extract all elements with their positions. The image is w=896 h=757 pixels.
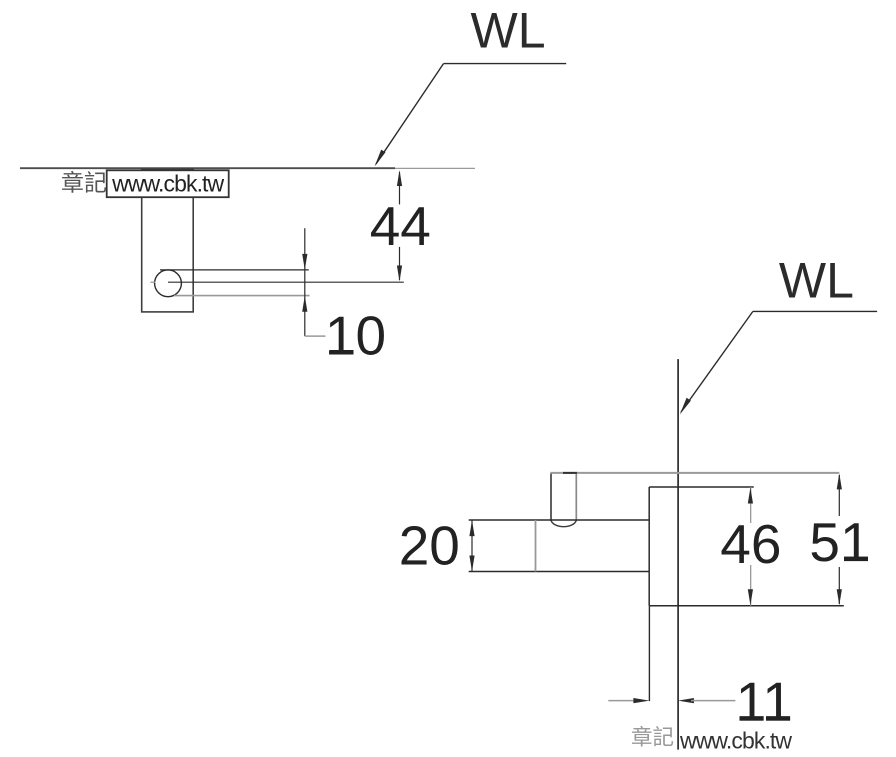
- svg-text:20: 20: [399, 514, 460, 576]
- svg-text:章記: 章記: [631, 726, 674, 750]
- lower bar (right view): [648, 606, 650, 701]
- WL leader line (left view): [375, 64, 567, 167]
- dimension 46: [720, 488, 781, 606]
- hook tip top edge (dark segment): [563, 472, 577, 474]
- arm bottom line (right view): [469, 571, 650, 573]
- fixture top line (right view): [550, 472, 839, 474]
- wall flange square (right view): [649, 487, 844, 606]
- svg-text:www.cbk.tw: www.cbk.tw: [679, 727, 792, 753]
- watermark box (top): [61, 170, 229, 198]
- dimension 51: [809, 473, 870, 605]
- arm top line (right view): [469, 519, 650, 521]
- arm centerline (left view): [151, 281, 156, 283]
- mount plate rectangle: [142, 169, 194, 312]
- wall line (left view): [20, 167, 475, 169]
- arm left end cap (right view): [535, 520, 537, 572]
- WL leader line (right view): [680, 311, 877, 414]
- svg-text:WL: WL: [471, 3, 546, 59]
- dimension 10: [302, 228, 386, 366]
- hook tip cylinder: [551, 474, 576, 527]
- svg-text:www.cbk.tw: www.cbk.tw: [111, 170, 224, 196]
- WL wall vertical line (right view): [677, 359, 679, 749]
- dimension 44: [370, 170, 431, 282]
- svg-text:46: 46: [720, 513, 781, 575]
- watermark (bottom): [631, 726, 792, 754]
- hook pivot circle: [155, 270, 182, 297]
- svg-text:11: 11: [736, 671, 793, 733]
- svg-text:WL: WL: [779, 253, 854, 309]
- svg-text:10: 10: [325, 304, 386, 366]
- arm top line (left view): [160, 269, 309, 271]
- dimension 11: [608, 671, 793, 733]
- svg-text:44: 44: [370, 195, 431, 257]
- svg-text:51: 51: [809, 511, 870, 573]
- dimension 20: [399, 514, 475, 576]
- svg-text:章記: 章記: [61, 170, 107, 196]
- arm bottom line (left view): [174, 295, 310, 297]
